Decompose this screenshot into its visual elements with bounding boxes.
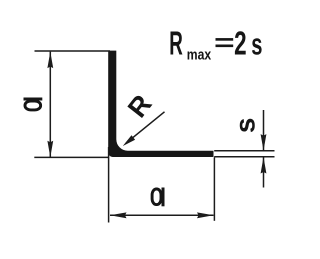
leader arrowhead [123,135,135,146]
svg-text:s: s [251,26,262,62]
label a (bottom) [152,188,164,207]
arrow down (s dim) [261,134,267,151]
extension line below corner (left, for bottom dim) [108,147,110,223]
formula equals sign [216,38,234,41]
leader line R [126,112,165,143]
arrow down (left dim) [47,141,53,158]
angle profile (L-section) [108,51,213,157]
svg-text:s: s [230,118,261,134]
svg-text:max: max [187,47,212,63]
extension line s top (top face of leg, to the right) [214,150,274,152]
arrow left (bottom dim) [110,212,127,218]
arrow up (left dim) [47,52,53,69]
dimension line s upper tail [263,110,265,150]
extension line bottom-left (outer face of horizontal leg) [34,156,108,158]
arrow up (s dim) [261,157,267,174]
extension line s bottom (bottom face of leg, to the right) [214,156,274,158]
extension line below leg end (right, for bottom dim) [213,157,215,220]
arrow right (bottom dim) [197,212,214,218]
svg-text:2: 2 [234,24,246,61]
label a (left, rotated) [24,98,43,110]
dimension line s lower tail [263,157,265,188]
dimension line a (bottom, horizontal) [110,214,214,216]
dimension line a (left, vertical) [49,52,51,158]
extension line top (outer face of vertical leg) [35,50,111,52]
svg-text:R: R [169,25,183,62]
